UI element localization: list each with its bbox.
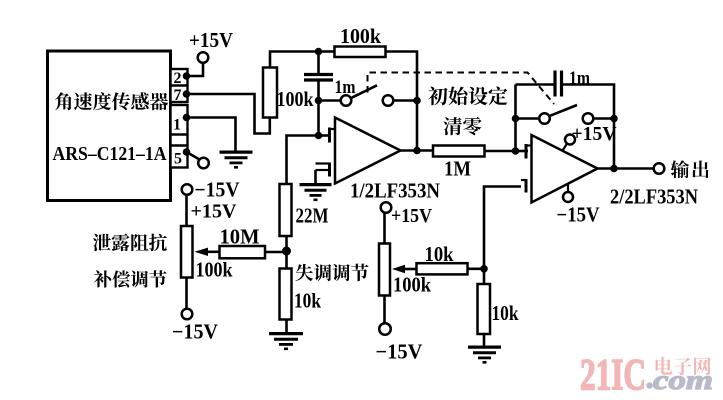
- resistor 1M (horizontal): [433, 146, 485, 157]
- svg-text:1M: 1M: [444, 157, 471, 181]
- wire node C left to 22M branch: [287, 136, 319, 185]
- svg-text:+15V: +15V: [191, 201, 238, 223]
- op-amp U1 inverting input gate bar: [328, 128, 331, 143]
- node switch S1 right junction dot: [413, 97, 421, 105]
- wire pot1 top: [185, 195, 188, 226]
- svg-text:10k: 10k: [294, 289, 321, 313]
- svg-text:100k: 100k: [393, 273, 431, 297]
- sensor label text 角速度传感器: [55, 92, 168, 110]
- label 输出: [671, 160, 709, 178]
- terminal +15V (op-amp2 supply): [565, 135, 575, 145]
- svg-text:100k: 100k: [196, 258, 233, 282]
- wire op-amp2 output: [597, 167, 654, 170]
- wire pin5 to -15V terminal: [187, 152, 200, 160]
- svg-text:100k: 100k: [340, 24, 381, 48]
- resistor 22M (vertical): [280, 184, 292, 236]
- svg-text:ARS–C121–1A: ARS–C121–1A: [53, 143, 167, 165]
- capacitor C2 1m: [553, 71, 556, 97]
- wire node B down to inverting input: [317, 101, 320, 136]
- wire node A to feedback resistor: [319, 50, 335, 53]
- svg-text:1: 1: [173, 117, 181, 134]
- svg-text:−15V: −15V: [557, 203, 600, 227]
- watermark 电子网: [656, 357, 711, 375]
- terminal -15V (sensor supply): [198, 158, 209, 169]
- node A dot (feedback top-left): [315, 48, 323, 56]
- svg-text:21IC: 21IC: [580, 350, 646, 399]
- svg-text:−15V: −15V: [376, 340, 423, 364]
- watermark dot: [646, 382, 652, 388]
- wire node E to op-amp2: [516, 150, 529, 153]
- svg-text:1m: 1m: [569, 68, 590, 89]
- wire 1M to node E: [485, 150, 516, 153]
- wire switch S2 right to vertical: [594, 117, 615, 120]
- switch S1 left contact: [341, 95, 352, 106]
- svg-text:+15V: +15V: [391, 205, 432, 227]
- resistor 100k (feedback, horizontal): [335, 47, 386, 58]
- terminal -15V (pot1 top circle): [182, 184, 193, 195]
- svg-text:−15V: −15V: [195, 178, 240, 202]
- pot2 wiper arrow: [404, 268, 417, 271]
- svg-text:5: 5: [174, 151, 182, 168]
- sensor pin box pins 2,7: [171, 69, 188, 102]
- wire input resistor top to node A: [270, 52, 319, 68]
- svg-text:22M: 22M: [296, 204, 329, 228]
- resistor 10M (horizontal): [220, 246, 266, 258]
- switch S1 arm: [352, 85, 378, 98]
- switch S2 left contact: [539, 113, 550, 124]
- node pin1 junction dot: [183, 114, 191, 122]
- switch S1 right contact: [383, 95, 394, 106]
- svg-text:100k: 100k: [277, 87, 314, 111]
- wire node C to op-amp1 input bar: [319, 134, 330, 137]
- dashed link line (switch gang): [368, 73, 555, 105]
- wire -15V stub: [567, 185, 569, 193]
- terminal -15V (op-amp2 supply): [563, 192, 573, 202]
- resistor 100k (input, vertical): [263, 68, 277, 118]
- wire op-amp2 non-inverting input: [484, 187, 521, 269]
- ground (below 10k): [269, 332, 303, 335]
- op-amp U2 inverting input gate bar: [525, 144, 528, 159]
- op-amp U1 1/2LF353N triangle: [335, 118, 401, 184]
- svg-text:10k: 10k: [425, 242, 454, 266]
- svg-text:+15V: +15V: [189, 28, 233, 52]
- resistor 10k (vertical, to ground): [483, 269, 486, 284]
- node E dot (op-amp2 inverting input): [512, 147, 520, 155]
- wire pot1 bottom: [185, 278, 188, 309]
- node B dot (inverting node): [315, 97, 323, 105]
- resistor 10k (horizontal, offset): [417, 263, 468, 274]
- pot1 wiper arrow: [207, 251, 220, 254]
- wire 10k to ground: [285, 320, 288, 334]
- sensor block U0 ARS-C121-1A outline: [48, 51, 171, 201]
- ground (sensor pin1): [220, 151, 253, 154]
- wire +15V to pot2: [383, 213, 386, 244]
- resistor 10k (horizontal, offset) right lead: [468, 267, 485, 270]
- label 补偿调节: [94, 270, 167, 287]
- svg-text:−15V: −15V: [172, 320, 218, 344]
- switch S2 right contact: [583, 113, 594, 124]
- wire +15V stub: [562, 144, 567, 152]
- node output junction dot: [610, 165, 618, 173]
- ground (10k right): [468, 346, 501, 349]
- svg-text:10k: 10k: [492, 301, 519, 325]
- wire op-amp1 output to 1M: [400, 149, 433, 152]
- wire switch S1 to right vertical: [394, 99, 418, 102]
- switch S2 arm: [550, 105, 577, 116]
- op-amp U2 non-inverting input gate bar: [525, 179, 528, 193]
- terminal -15V (pot1 bottom): [182, 309, 193, 320]
- node D dot (op-amp1 output): [413, 147, 421, 155]
- wire 22M to node F: [285, 236, 288, 269]
- wire node E up to cap C2 row: [514, 85, 517, 152]
- node F dot (22M/10k/10M junction): [282, 247, 291, 256]
- node switch S2 right junction dot: [610, 115, 618, 123]
- svg-text:+15V: +15V: [572, 123, 618, 145]
- terminal +15V (pot2 top): [381, 202, 392, 213]
- label 泄露阻抗: [93, 234, 167, 252]
- potentiometer 100k (offset adj) body: [379, 244, 390, 296]
- wire node A down to capacitor C1: [317, 52, 320, 74]
- terminal -15V (pot2 bottom): [379, 323, 391, 335]
- node dot (10k/10k junction): [480, 265, 488, 273]
- terminal +15V (sensor supply): [198, 52, 209, 63]
- wire pot2 bottom to -15V: [383, 296, 386, 324]
- ground (op-amp1 non-inverting): [300, 183, 332, 186]
- wire pin7 to input resistor: [187, 94, 270, 134]
- svg-text:7: 7: [174, 87, 182, 104]
- sensor pin box pins 1,5: [171, 105, 188, 168]
- op-amp U1 non-inverting input gate bar: [328, 163, 331, 177]
- node pin5 junction dot: [183, 148, 191, 156]
- wire node to switch S2: [516, 117, 540, 120]
- wire cap C2 to right vertical: [562, 85, 615, 169]
- capacitor C1 1m: [304, 73, 333, 76]
- potentiometer 100k (leak comp) body: [181, 226, 193, 278]
- svg-text:1/2LF353N: 1/2LF353N: [350, 179, 440, 203]
- wire non-inverting input to ground: [314, 170, 317, 183]
- wire capacitor C1 to node B: [317, 80, 320, 101]
- op-amp U2 2/2LF353N triangle: [532, 135, 598, 203]
- svg-text:2/2LF353N: 2/2LF353N: [610, 185, 698, 209]
- wire cap row left: [516, 83, 555, 86]
- svg-text:10M: 10M: [220, 225, 260, 249]
- wire pin1 to ground: [187, 118, 236, 151]
- label 失调调节: [296, 264, 369, 282]
- wire feedback resistor to right vertical: [386, 52, 418, 151]
- wire 10M to node F: [265, 251, 287, 254]
- svg-text:2: 2: [174, 70, 182, 87]
- wire pin2 to +15V terminal: [187, 63, 204, 76]
- terminal output: [654, 163, 665, 174]
- label 清零: [444, 117, 482, 135]
- resistor 10k (below 22M): [280, 269, 292, 320]
- wire node B to switch S1: [319, 99, 341, 102]
- node C dot (op-amp1 inverting input): [315, 132, 323, 140]
- label 初始设定: [428, 87, 507, 106]
- node pin2 junction dot: [183, 72, 191, 80]
- node pin7 junction dot: [183, 90, 191, 98]
- node switch S2 left junction dot: [512, 115, 520, 123]
